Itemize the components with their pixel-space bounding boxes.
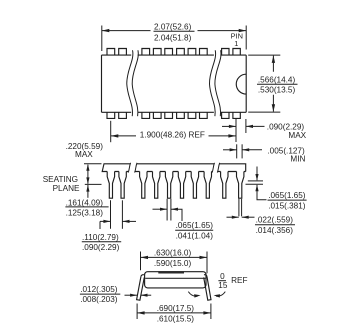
end view body: [145, 272, 206, 288]
svg-text:REF: REF: [231, 276, 247, 285]
dimension .012/.008 lead thickness: [80, 285, 151, 304]
svg-text:.110(2.79): .110(2.79): [82, 233, 119, 242]
dimension .022/.014 lead thickness: [227, 199, 296, 235]
dimension .690/.610: [137, 304, 211, 324]
svg-text:2.04(51.8): 2.04(51.8): [154, 33, 192, 42]
break lines right (top view): [209, 50, 221, 116]
side view body section 3: [217, 163, 245, 173]
side view body section 2: [135, 163, 215, 173]
dimension .005 MIN: [223, 144, 305, 163]
lead angle arcs 0-15 REF: [188, 272, 247, 298]
svg-text:.530(13.5): .530(13.5): [258, 86, 296, 95]
dimension .566/.530 body width: [248, 55, 297, 112]
svg-text:.090(2.29): .090(2.29): [82, 243, 120, 252]
svg-text:.065(1.65): .065(1.65): [268, 191, 306, 200]
top pin stubs row: [107, 49, 240, 56]
end view right lead: [204, 275, 211, 300]
dimension .110/.090 pin spacing: [82, 200, 136, 252]
svg-text:.610(15.5): .610(15.5): [157, 314, 195, 323]
dimension .065/.041 lead width: [153, 199, 214, 241]
svg-text:.014(.356): .014(.356): [256, 226, 294, 235]
svg-text:.125(3.18): .125(3.18): [66, 209, 104, 218]
svg-text:.630(16.0): .630(16.0): [154, 249, 192, 258]
svg-text:.015(.381): .015(.381): [268, 201, 306, 210]
svg-text:1.900(48.26) REF: 1.900(48.26) REF: [140, 130, 205, 139]
side view leads: [107, 172, 244, 199]
PIN 1 label: [231, 31, 243, 48]
svg-text:.008(.203): .008(.203): [80, 295, 118, 304]
svg-text:2.07(52.6): 2.07(52.6): [154, 22, 192, 31]
dimension .630/.590: [141, 249, 208, 274]
svg-text:.065(1.65): .065(1.65): [176, 221, 214, 230]
svg-text:.022(.559): .022(.559): [256, 216, 294, 225]
seating plane line: [85, 183, 102, 185]
dimension 1.900 REF: [111, 119, 236, 142]
end view left lead: [137, 275, 145, 300]
svg-text:1: 1: [234, 39, 238, 48]
dimension 2.07/2.04 overall length: [102, 22, 246, 51]
svg-text:.690(17.5): .690(17.5): [157, 304, 195, 313]
dimension .065/.015 seating gap: [246, 167, 307, 211]
svg-text:.590(15.0): .590(15.0): [154, 259, 192, 268]
svg-text:0: 0: [220, 272, 225, 281]
dimension .220 MAX: [66, 142, 104, 184]
break lines left (top view): [127, 50, 139, 116]
svg-text:MAX: MAX: [75, 150, 93, 159]
pin 1 index notch: [236, 74, 246, 94]
svg-text:.012(.305): .012(.305): [80, 285, 118, 294]
dimension .090 MAX (pin center to body end): [222, 119, 307, 140]
bottom pin stubs row: [107, 112, 240, 118]
svg-text:PLANE: PLANE: [53, 184, 80, 193]
svg-text:MIN: MIN: [290, 155, 305, 164]
svg-text:.566(14.4): .566(14.4): [258, 75, 296, 84]
svg-text:.161(4.09): .161(4.09): [66, 198, 104, 207]
svg-text:MAX: MAX: [288, 131, 306, 140]
svg-text:.041(1.04): .041(1.04): [176, 231, 214, 240]
svg-text:SEATING: SEATING: [43, 175, 78, 184]
seating plane label: [43, 175, 80, 193]
dimension .161/.125: [65, 185, 108, 218]
side view body section 1: [102, 163, 130, 173]
svg-text:15: 15: [218, 281, 228, 290]
top view body: [102, 55, 247, 112]
